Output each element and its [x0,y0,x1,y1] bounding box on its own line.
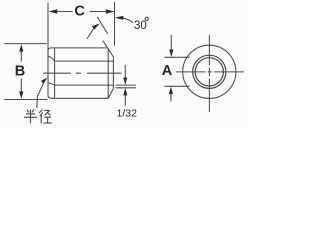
svg-text:C: C [74,3,85,19]
svg-text:B: B [15,64,25,80]
svg-text:A: A [162,63,173,79]
svg-text:30: 30 [134,20,147,32]
svg-text:1/32: 1/32 [117,107,138,119]
